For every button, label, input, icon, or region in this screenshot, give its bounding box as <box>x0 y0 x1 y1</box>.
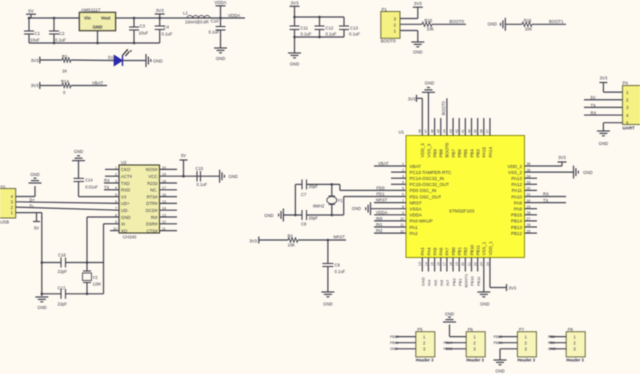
svg-text:47: 47 <box>424 129 428 133</box>
wire USB pin1 to 5V <box>16 213 42 222</box>
wire VDD_2 to 3V3 <box>525 162 563 166</box>
wire P1 pin3 to 3V3 <box>400 7 418 18</box>
svg-text:PB0: PB0 <box>451 247 456 256</box>
node PB11 wire P5 <box>390 341 416 345</box>
svg-text:PB14: PB14 <box>444 341 453 345</box>
wire gnd rail at USB <box>41 217 44 296</box>
resistor R16 10K <box>505 18 532 31</box>
node VBAT wire <box>374 161 406 166</box>
svg-text:RXD: RXD <box>121 188 130 193</box>
wire P1 pin1 to ground <box>400 31 418 43</box>
ground below C11 group <box>288 37 301 67</box>
crystal Y2 12M <box>83 263 102 294</box>
svg-text:GND: GND <box>121 215 131 220</box>
svg-text:BOOT0: BOOT0 <box>441 100 446 115</box>
ground below C10 <box>214 48 227 61</box>
wire CH340 XI <box>104 224 120 294</box>
svg-text:5: 5 <box>402 187 404 191</box>
svg-text:R232: R232 <box>147 181 158 186</box>
wire CH340 VCC to C15 <box>160 175 220 178</box>
svg-text:0.1uF: 0.1uF <box>162 32 173 37</box>
svg-text:10uF: 10uF <box>139 31 149 36</box>
svg-text:3V3: 3V3 <box>509 286 517 291</box>
wire CH340 pin1 stub <box>105 168 119 170</box>
svg-text:R14: R14 <box>61 79 69 84</box>
ground at VSS_1 <box>477 292 490 307</box>
power 3V3 at R14 <box>31 82 40 89</box>
svg-text:3V3: 3V3 <box>249 239 257 244</box>
node BOOT0 label <box>432 19 466 24</box>
node RX wire P4 <box>584 110 623 115</box>
svg-text:C14: C14 <box>85 178 93 183</box>
node TX wire CH340 RXD <box>104 185 119 190</box>
capacitor C16 22pF <box>42 253 104 275</box>
svg-text:RX: RX <box>591 110 597 115</box>
svg-text:RX: RX <box>104 178 110 183</box>
ground at C9 <box>321 292 334 307</box>
svg-text:P4: P4 <box>623 81 629 86</box>
svg-text:22pF: 22pF <box>58 269 68 274</box>
node BOOT1 label <box>532 19 566 24</box>
wire 3V3 rail <box>116 17 245 19</box>
svg-text:PB10: PB10 <box>469 244 474 255</box>
node NRST label <box>298 234 346 241</box>
LED D1 <box>108 49 132 66</box>
svg-text:42: 42 <box>455 129 459 133</box>
capacitor C3 10uF <box>129 17 149 45</box>
svg-text:PA13: PA13 <box>511 176 522 181</box>
svg-text:40: 40 <box>467 129 471 133</box>
power 3V3 at R1 <box>31 57 40 64</box>
svg-text:BOOT0: BOOT0 <box>449 19 464 24</box>
svg-text:PA8: PA8 <box>514 207 523 212</box>
svg-text:PB10: PB10 <box>390 335 399 339</box>
svg-text:PB6: PB6 <box>457 149 462 158</box>
svg-text:C16: C16 <box>58 253 66 258</box>
svg-text:3V3: 3V3 <box>290 1 299 6</box>
svg-text:Header 3: Header 3 <box>416 358 434 363</box>
svg-text:GND: GND <box>480 302 490 307</box>
svg-text:XO: XO <box>121 228 128 233</box>
wire P6 pin1 to ground <box>450 325 467 337</box>
svg-text:CTS#: CTS# <box>147 228 159 233</box>
svg-text:3V3: 3V3 <box>600 76 608 81</box>
svg-text:R1: R1 <box>62 54 68 59</box>
svg-text:C11: C11 <box>301 26 309 31</box>
svg-text:5V: 5V <box>34 226 39 231</box>
connector P4 UART <box>623 81 640 131</box>
svg-text:PD0 OSC_IN: PD0 OSC_IN <box>410 188 437 193</box>
svg-text:PB1: PB1 <box>457 247 462 256</box>
node BOOT1 wire <box>464 258 469 288</box>
wire P4 pin1 to 3V3 <box>603 83 622 93</box>
ground below P7 <box>494 360 507 374</box>
svg-text:C2: C2 <box>59 31 65 36</box>
svg-text:0.1uF: 0.1uF <box>301 32 312 37</box>
power VDDA flag <box>214 0 226 19</box>
svg-text:XI: XI <box>121 222 125 227</box>
node IN6 wire <box>439 258 444 287</box>
svg-text:48: 48 <box>418 129 422 133</box>
svg-text:Y1: Y1 <box>338 198 344 203</box>
svg-text:GND: GND <box>390 347 398 351</box>
wire crystal left link <box>294 184 296 215</box>
capacitor C4 0.1uF <box>155 18 173 43</box>
svg-text:NRST: NRST <box>333 234 345 239</box>
wire PB13 stub <box>525 226 538 228</box>
wire PC13 stub <box>391 171 406 173</box>
svg-text:BOOT0: BOOT0 <box>381 39 396 44</box>
svg-text:VBAT: VBAT <box>92 81 103 86</box>
wire PC14 stub <box>391 177 406 179</box>
svg-text:P8: P8 <box>568 327 574 332</box>
svg-text:CH340: CH340 <box>123 235 137 240</box>
svg-text:43: 43 <box>449 129 453 133</box>
svg-text:USB: USB <box>0 219 9 224</box>
svg-text:PB1: PB1 <box>457 278 462 286</box>
svg-text:GND: GND <box>445 312 454 317</box>
svg-text:VDDA: VDDA <box>214 0 226 5</box>
wire gnd rail <box>29 42 160 44</box>
svg-text:PB9: PB9 <box>548 341 555 345</box>
svg-text:5V: 5V <box>591 95 596 100</box>
connector P8 <box>566 327 585 363</box>
svg-text:GND: GND <box>413 50 423 55</box>
node IN7 wire <box>445 258 450 287</box>
power 3V3 at VDD_3 <box>408 95 417 102</box>
svg-text:NRST: NRST <box>376 198 388 203</box>
node VDDA pin wire <box>374 210 406 215</box>
svg-text:24: 24 <box>486 262 490 266</box>
svg-text:PB7: PB7 <box>451 149 456 158</box>
svg-text:PB11: PB11 <box>476 276 481 286</box>
ground at LED <box>146 54 163 67</box>
svg-text:0.1uF: 0.1uF <box>335 269 346 274</box>
svg-text:C1: C1 <box>35 31 41 36</box>
svg-text:7: 7 <box>115 207 117 211</box>
svg-text:Vout: Vout <box>101 16 111 21</box>
node IN2 wire <box>374 228 406 233</box>
svg-text:TX: TX <box>104 185 110 190</box>
ground at C14 <box>72 149 85 161</box>
svg-text:PA9: PA9 <box>514 200 523 205</box>
svg-text:D1: D1 <box>108 55 114 60</box>
svg-text:10K: 10K <box>288 242 296 247</box>
power 3V3 at VDD_2 <box>558 155 567 162</box>
power 3V3 at C11 <box>290 1 300 18</box>
svg-text:PB13: PB13 <box>494 341 503 345</box>
wire VDD_1 to 3V3 <box>490 258 506 288</box>
svg-text:17: 17 <box>443 262 447 266</box>
wire PD1 net <box>344 192 406 215</box>
svg-text:0.1uF: 0.1uF <box>349 32 360 37</box>
svg-text:C9: C9 <box>335 262 341 267</box>
svg-text:PB13: PB13 <box>511 225 523 230</box>
svg-text:PA0-WKUP: PA0-WKUP <box>410 219 433 224</box>
svg-text:P5: P5 <box>417 327 423 332</box>
svg-text:PB15: PB15 <box>444 347 453 351</box>
wire R1 to LED <box>71 59 114 62</box>
svg-text:3V3: 3V3 <box>408 96 416 101</box>
ground at USB <box>29 172 42 183</box>
wire PC15 stub <box>391 183 406 185</box>
svg-text:6: 6 <box>115 200 117 204</box>
svg-text:DCD#: DCD# <box>146 208 158 213</box>
svg-text:GND: GND <box>30 172 40 177</box>
svg-text:10mH@0.6R: 10mH@0.6R <box>185 20 209 25</box>
node PB15 wire P6 <box>444 347 467 351</box>
svg-text:PC15-OSC32_OUT: PC15-OSC32_OUT <box>410 182 450 187</box>
svg-text:18: 18 <box>449 262 453 266</box>
svg-text:13: 13 <box>418 262 422 266</box>
node D+ wire <box>16 197 119 203</box>
svg-text:VDD_1: VDD_1 <box>488 241 493 256</box>
svg-text:PB8: PB8 <box>439 149 444 158</box>
wire 5V rail <box>29 17 79 19</box>
svg-text:PB14: PB14 <box>511 219 523 224</box>
svg-text:UART: UART <box>623 126 636 131</box>
svg-text:GND: GND <box>495 369 504 374</box>
svg-text:6: 6 <box>402 193 404 197</box>
ground below crystal rail <box>35 297 48 310</box>
svg-text:GND: GND <box>352 206 361 211</box>
svg-text:PB11: PB11 <box>475 245 480 256</box>
svg-text:RX: RX <box>543 192 549 197</box>
resistor R14 0 <box>40 79 71 95</box>
capacitor C13 0.1uF <box>339 26 360 38</box>
ground at VSS_2 <box>574 166 593 179</box>
svg-text:16: 16 <box>437 262 441 266</box>
capacitor C11 0.1uF <box>290 17 312 37</box>
wire PB14 stub <box>525 220 538 222</box>
wire VSS_3 to ground <box>427 92 429 135</box>
wire PA12 stub <box>525 183 538 185</box>
svg-text:PB4: PB4 <box>469 149 474 158</box>
power 3V3 at VDD_1 <box>507 284 517 291</box>
capacitor C17 22pF <box>42 286 104 307</box>
wire P7 pin3 to ground <box>500 349 517 360</box>
node PB13 wire P7 <box>494 341 518 345</box>
power 3V3 at P4 <box>599 76 607 83</box>
wire CH340 GND to crystal <box>87 217 119 263</box>
svg-text:GND: GND <box>487 22 497 27</box>
wire PA13 stub <box>525 177 538 179</box>
wire MCU top stubs <box>435 118 490 136</box>
svg-text:0.1uF: 0.1uF <box>197 182 208 187</box>
svg-text:PA14: PA14 <box>488 147 493 158</box>
svg-text:Header 3: Header 3 <box>517 358 535 363</box>
svg-text:STM32F103: STM32F103 <box>449 208 475 213</box>
svg-text:R15: R15 <box>425 18 433 23</box>
svg-text:PC14-OSC32_IN: PC14-OSC32_IN <box>410 176 445 181</box>
resistor R15 10K <box>422 18 434 31</box>
svg-text:45: 45 <box>437 129 441 133</box>
svg-text:3V3: 3V3 <box>414 1 422 6</box>
svg-text:NC.: NC. <box>150 188 157 193</box>
wire PD0 net <box>340 184 406 190</box>
svg-text:U2: U2 <box>121 160 127 165</box>
svg-text:VSSA: VSSA <box>410 207 422 212</box>
svg-text:VSS_2: VSS_2 <box>508 170 523 175</box>
svg-text:TX: TX <box>543 198 549 203</box>
node GND wire P5 <box>390 347 416 351</box>
power 5V input <box>26 9 36 19</box>
power 3V3 at R2 <box>249 237 259 244</box>
svg-text:NOS#: NOS# <box>146 167 158 172</box>
wire P4 pin5 to ground <box>603 123 622 131</box>
svg-text:46: 46 <box>430 129 434 133</box>
svg-text:5V: 5V <box>28 9 34 14</box>
wire PB15 stub <box>525 214 538 216</box>
node IN5 wire <box>433 258 438 287</box>
svg-text:IN2: IN2 <box>376 228 383 233</box>
connector P5 <box>416 327 435 363</box>
svg-text:PA12: PA12 <box>511 182 522 187</box>
node PB10 wire P5 <box>390 335 416 339</box>
svg-text:CKO: CKO <box>121 167 131 172</box>
svg-text:C12: C12 <box>326 26 334 31</box>
svg-text:VBAT: VBAT <box>410 164 422 169</box>
svg-text:5V: 5V <box>181 153 186 158</box>
wire cap group top rail <box>293 16 344 26</box>
svg-text:IN4: IN4 <box>427 279 432 286</box>
wire LED to ground <box>123 60 147 62</box>
svg-text:U1: U1 <box>399 130 405 135</box>
svg-text:VBAT: VBAT <box>378 161 389 166</box>
node PB1 wire <box>457 258 462 287</box>
wire VSS_1 to ground <box>483 258 485 293</box>
wire P1 pin2 <box>400 23 422 25</box>
svg-text:C3: C3 <box>140 24 146 29</box>
svg-text:ACT#: ACT# <box>121 174 133 179</box>
svg-text:R16: R16 <box>524 18 532 23</box>
svg-text:10K: 10K <box>525 26 533 31</box>
svg-text:BOOT1: BOOT1 <box>549 19 564 24</box>
svg-text:C15: C15 <box>196 166 204 171</box>
svg-text:PD0: PD0 <box>376 185 385 190</box>
svg-text:PA15: PA15 <box>482 147 487 158</box>
svg-text:0.1uF: 0.1uF <box>326 32 337 37</box>
svg-text:PB10: PB10 <box>470 275 475 286</box>
svg-text:PA7: PA7 <box>445 247 450 256</box>
node PB0 wire <box>451 258 456 287</box>
svg-text:C7: C7 <box>301 192 307 197</box>
svg-text:GND: GND <box>93 24 103 29</box>
svg-text:0.01uF: 0.01uF <box>85 184 98 189</box>
node PB11 wire <box>476 258 481 287</box>
svg-text:PB11: PB11 <box>390 341 399 345</box>
wire VDD_3 to 3V3 <box>417 98 423 135</box>
svg-text:BOOT0: BOOT0 <box>445 142 450 157</box>
svg-text:PD1 OSC_OUT: PD1 OSC_OUT <box>410 194 442 199</box>
svg-text:BOOT1: BOOT1 <box>464 273 469 287</box>
svg-text:20: 20 <box>461 262 465 266</box>
svg-text:C17: C17 <box>58 286 66 291</box>
capacitor C15 0.1uF <box>196 166 208 187</box>
node RX wire PA10 <box>525 192 567 197</box>
svg-text:NRST: NRST <box>410 200 423 205</box>
capacitor C10 0.1uF <box>209 18 226 48</box>
svg-text:VDD_2: VDD_2 <box>507 164 522 169</box>
svg-text:PC13-TAMPER-RTC: PC13-TAMPER-RTC <box>410 170 453 175</box>
svg-text:PA6: PA6 <box>439 247 444 256</box>
svg-text:PA2: PA2 <box>410 231 419 236</box>
ground above MCU <box>422 81 435 93</box>
svg-text:Header 3: Header 3 <box>566 358 584 363</box>
resistor R2 10K <box>259 233 298 247</box>
svg-text:GND: GND <box>74 149 83 154</box>
svg-text:P7: P7 <box>519 327 525 332</box>
svg-text:PB5: PB5 <box>463 149 468 158</box>
capacitor C1 10uF <box>24 17 41 43</box>
wire VSS_2 to ground <box>525 171 574 173</box>
svg-text:DTR#: DTR# <box>146 201 158 206</box>
svg-text:V3: V3 <box>121 194 127 199</box>
svg-text:PB12: PB12 <box>511 231 523 236</box>
svg-text:RI#: RI# <box>151 215 158 220</box>
node 5V wire P4 <box>584 95 623 100</box>
wire CH340 XO stub <box>110 230 119 232</box>
svg-text:GND: GND <box>425 81 435 86</box>
svg-text:PB9: PB9 <box>432 149 437 158</box>
svg-text:GND: GND <box>37 305 46 310</box>
svg-text:UD-: UD- <box>121 208 129 213</box>
svg-text:PA3: PA3 <box>420 247 425 256</box>
svg-text:41: 41 <box>461 129 465 133</box>
regulator U3 AMS1117 <box>79 7 115 44</box>
power 3V3 at P1 <box>413 1 423 7</box>
IC U2 CH340 <box>113 160 166 240</box>
connector P2 USB <box>0 184 16 224</box>
node PB9 wire P8 <box>548 341 566 345</box>
svg-text:IN6: IN6 <box>439 279 444 286</box>
svg-text:PA5: PA5 <box>432 247 437 256</box>
ground at P1 <box>411 42 424 55</box>
svg-text:RTS#: RTS# <box>147 194 159 199</box>
capacitor C7 20pF <box>295 179 340 197</box>
svg-text:GND: GND <box>548 347 556 351</box>
node NRST pin wire <box>374 198 406 203</box>
ground at R16 <box>487 18 505 31</box>
svg-text:VSS_3: VSS_3 <box>426 143 431 157</box>
wire CH340 V3 <box>79 196 120 198</box>
node PB8 wire P8 <box>548 335 566 339</box>
wire CH340 NC stubs <box>160 169 178 230</box>
svg-text:C4: C4 <box>164 25 170 30</box>
ground at C15 <box>220 170 238 183</box>
wire CH340 pin2 stub <box>105 175 119 177</box>
wire USB pin4 to ground <box>16 186 35 197</box>
svg-text:3V3: 3V3 <box>31 58 39 63</box>
node D- wire <box>16 203 119 210</box>
svg-text:37: 37 <box>486 129 490 133</box>
node PB12 wire P7 <box>494 335 518 339</box>
svg-text:GND: GND <box>153 59 163 64</box>
svg-text:PB8: PB8 <box>548 335 555 339</box>
node RX wire CH340 TXD <box>104 178 119 183</box>
ground above P6 <box>443 312 456 323</box>
svg-text:12M: 12M <box>93 282 102 287</box>
power 5V flag at CH340 <box>180 153 188 176</box>
svg-text:IN0: IN0 <box>376 216 383 221</box>
svg-text:VDDA: VDDA <box>376 210 388 215</box>
node PB10 wire <box>470 258 475 287</box>
svg-text:PB2: PB2 <box>463 247 468 256</box>
wire cap group bottom rail <box>293 36 344 39</box>
svg-text:IN7: IN7 <box>445 279 450 286</box>
svg-text:1K: 1K <box>62 69 67 74</box>
svg-text:38: 38 <box>480 129 484 133</box>
